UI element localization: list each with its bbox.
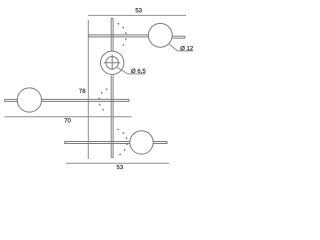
label 53 (top) bbox=[136, 8, 142, 12]
top peg ball (Ø12) bbox=[148, 23, 172, 47]
dimension line 53 (top) bbox=[88, 14, 186, 16]
top peg tip stub bbox=[172, 36, 185, 38]
top peg rod bbox=[89, 35, 149, 37]
hub outer circle bbox=[101, 51, 124, 74]
dimension line 70 bbox=[5, 116, 132, 118]
leader line Ø12 bbox=[169, 44, 193, 51]
wall strip (vertical bar), lower part bbox=[111, 75, 114, 157]
swivel arc (left, dashed) bbox=[99, 89, 107, 112]
label 53 (bottom) bbox=[117, 165, 123, 169]
swivel arc (bottom, dashed) bbox=[117, 129, 127, 155]
label 78 bbox=[79, 89, 85, 93]
left peg rod (through strip) bbox=[42, 99, 130, 101]
label Ø 12 bbox=[180, 46, 193, 50]
bottom peg rod bbox=[65, 142, 130, 144]
left peg ball bbox=[17, 88, 41, 112]
dimension line 78 (vertical) bbox=[87, 20, 89, 159]
label Ø 6,5 bbox=[131, 69, 145, 74]
leader line Ø6,5 bbox=[117, 67, 146, 74]
hub center cross bbox=[104, 55, 120, 70]
dimension line 53 (bottom) bbox=[66, 162, 169, 164]
bottom peg ball bbox=[130, 131, 153, 154]
label 70 bbox=[64, 118, 70, 122]
bottom peg tip stub bbox=[153, 142, 167, 144]
left peg rod (tip) bbox=[5, 99, 18, 101]
swivel arc (top, dashed) bbox=[118, 23, 127, 47]
hub hole circle (Ø6,5) bbox=[106, 56, 119, 68]
wall strip (vertical bar), upper part bbox=[111, 19, 114, 52]
